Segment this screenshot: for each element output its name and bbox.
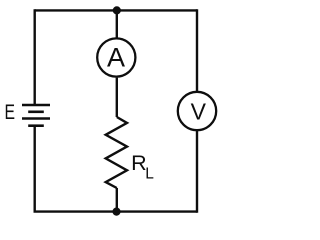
wire left lower: battery bottom plate down to bottom corner [34, 126, 36, 212]
label RL [131, 151, 154, 182]
wire middle lower: resistor to bottom junction [116, 188, 118, 212]
wire left: top corner down to battery top plate [34, 9, 36, 105]
label E [5, 100, 16, 124]
resistor RL zigzag [106, 117, 127, 188]
voltmeter V [178, 92, 216, 130]
wire bottom: left corner to right corner [34, 210, 198, 212]
battery E [22, 105, 50, 126]
svg-text:V: V [191, 99, 207, 125]
node top junction [113, 6, 121, 14]
ammeter A [97, 38, 135, 76]
wire top: left corner to right corner [35, 9, 197, 11]
svg-text:A: A [107, 43, 125, 73]
wire middle upper: top junction to ammeter [116, 10, 118, 37]
wire right upper: top corner down to voltmeter [196, 9, 198, 91]
svg-text:E: E [5, 100, 16, 124]
wire right lower: voltmeter to bottom corner [196, 131, 198, 213]
wire middle: ammeter to resistor [116, 78, 118, 117]
node bottom junction [112, 208, 120, 216]
svg-text:L: L [145, 166, 154, 183]
